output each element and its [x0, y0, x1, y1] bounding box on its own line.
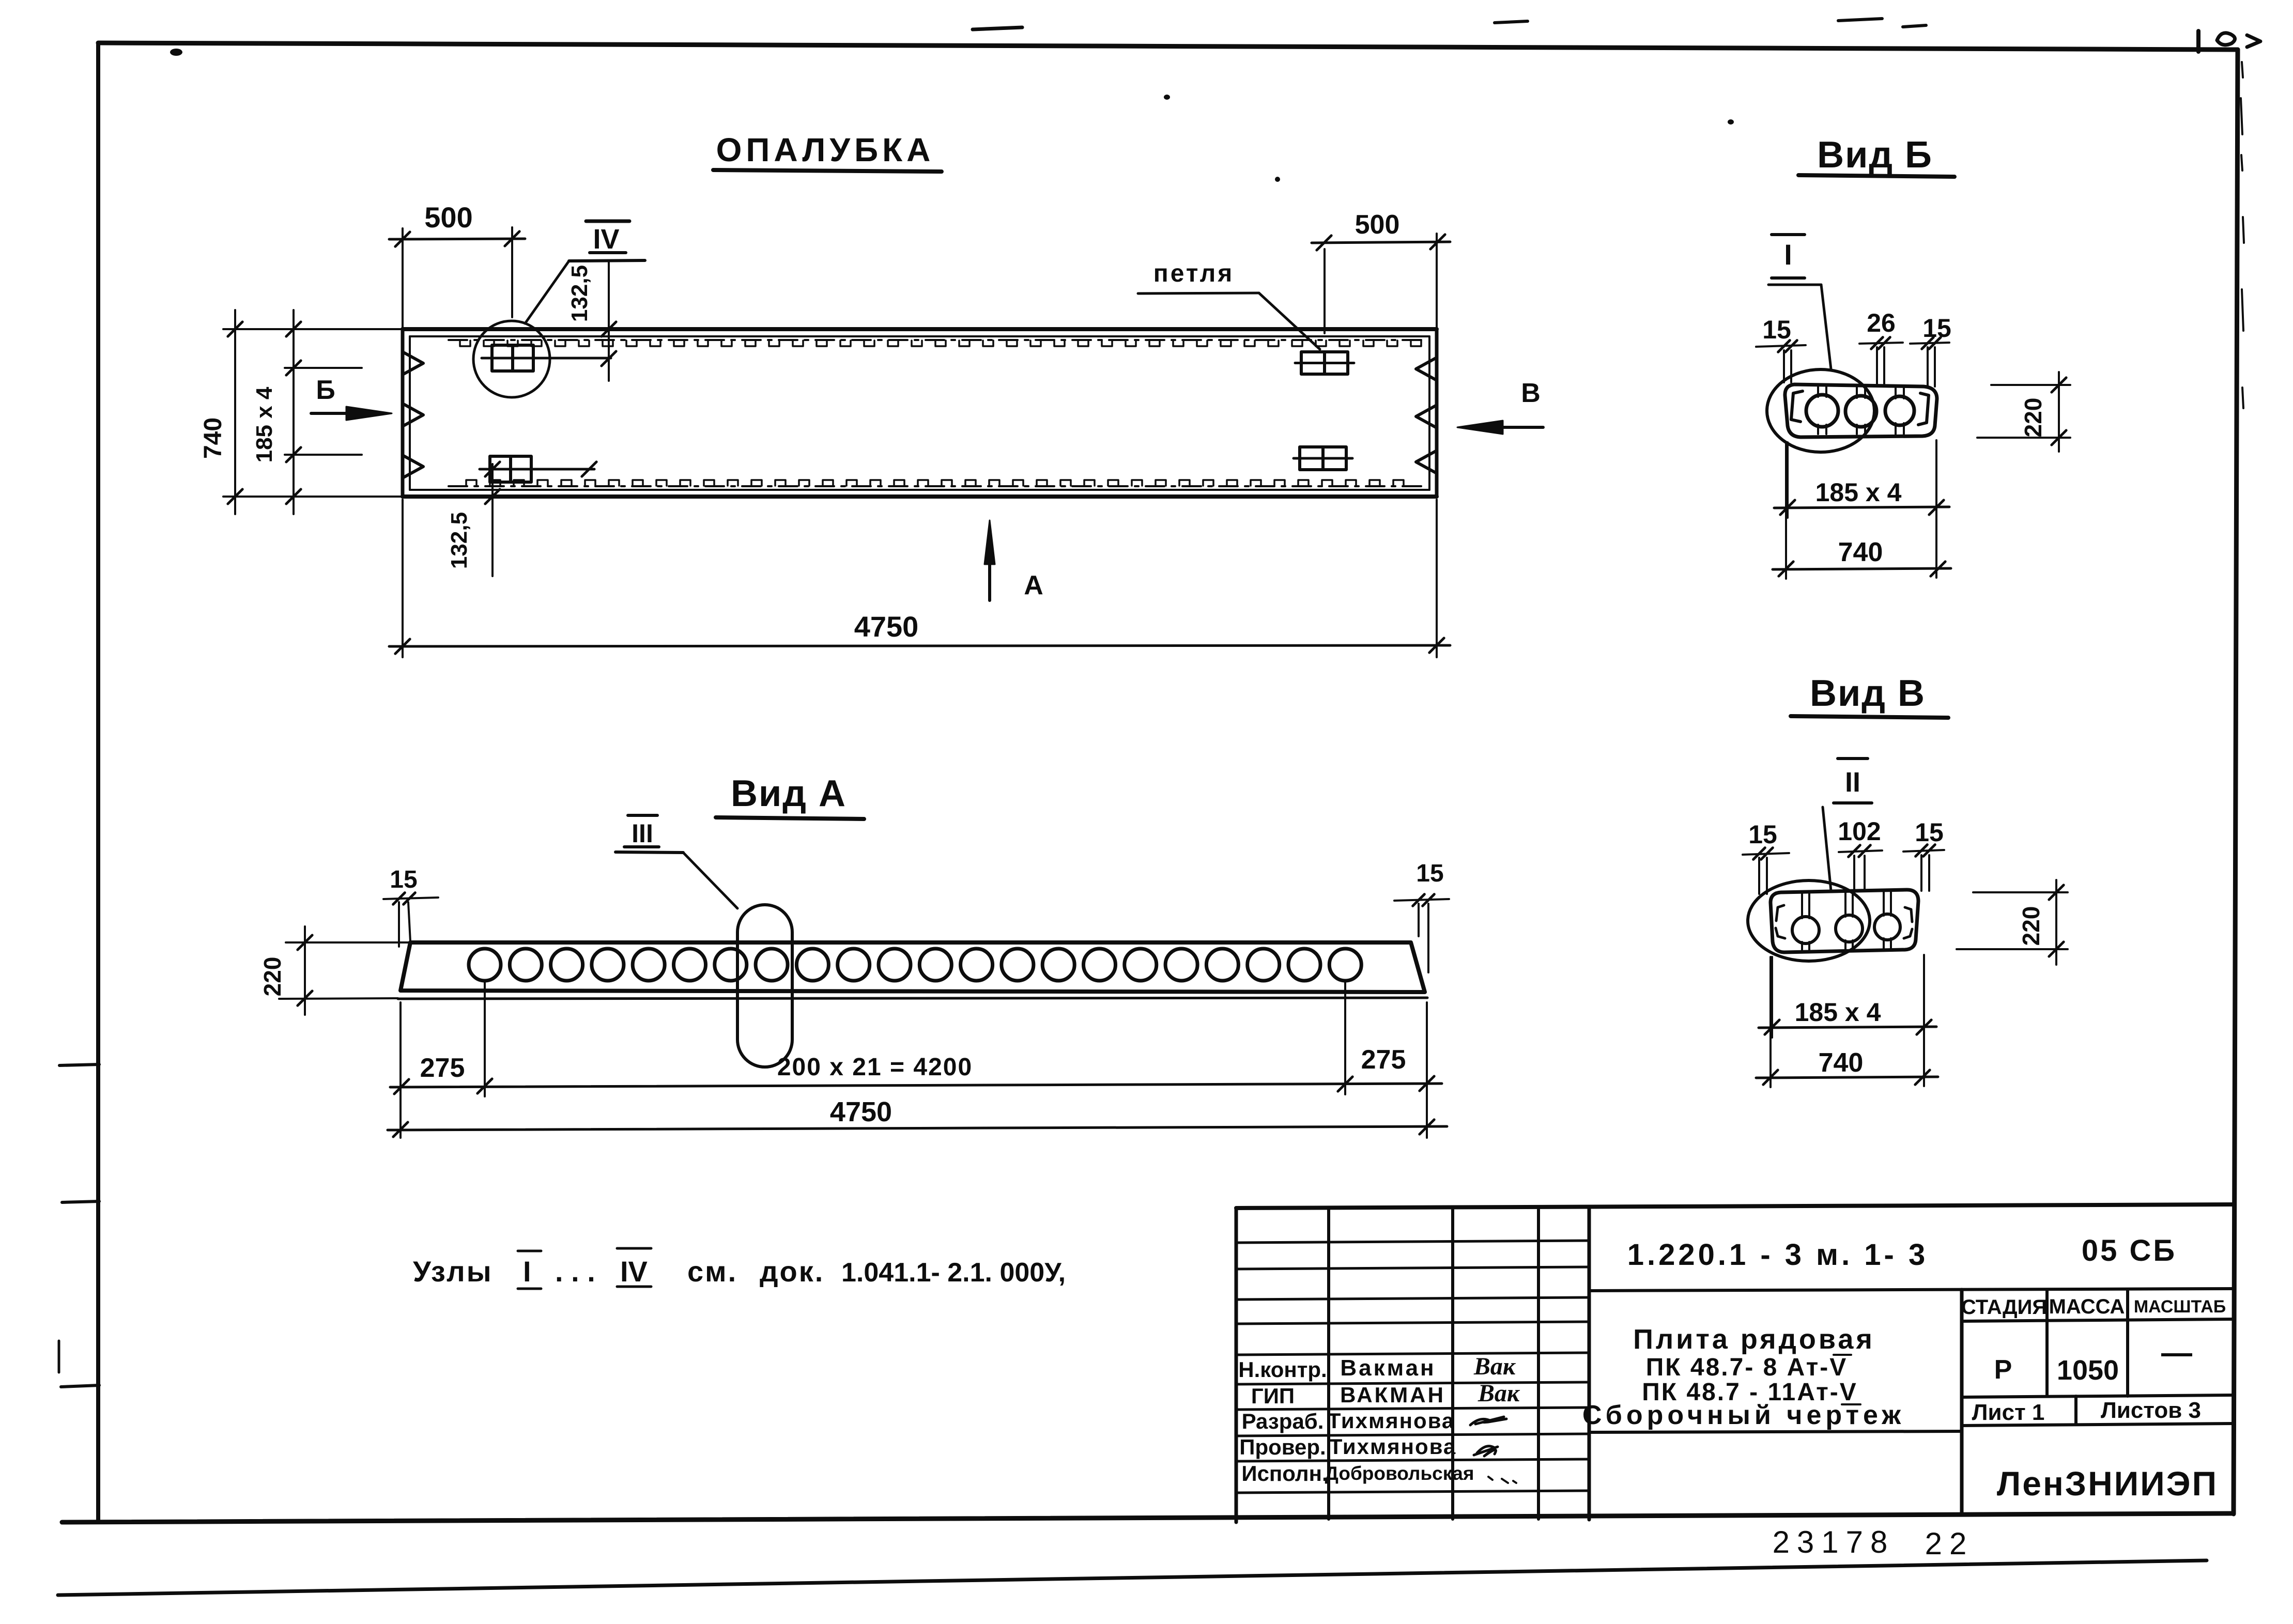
svg-text:Тихмянова: Тихмянова	[1328, 1409, 1455, 1433]
serrated key joint top (dash-dot + teeth)	[449, 339, 1422, 341]
svg-text:А: А	[1024, 570, 1043, 600]
svg-text:Вак: Вак	[1478, 1380, 1520, 1407]
svg-text:IV: IV	[593, 224, 619, 255]
svg-text:—: —	[2161, 1335, 2192, 1370]
detail capsule callout III	[737, 905, 792, 1067]
left margin fold ticks	[59, 1064, 99, 1065]
svg-text:МАСШТАБ: МАСШТАБ	[2134, 1297, 2226, 1317]
svg-text:740: 740	[199, 417, 227, 459]
svg-text:Исполн.: Исполн.	[1241, 1461, 1328, 1486]
svg-text:Вид А: Вид А	[731, 773, 847, 814]
section В cores	[1792, 917, 1819, 944]
svg-text:15: 15	[1762, 315, 1791, 344]
svg-text:05 СБ: 05 СБ	[2082, 1234, 2177, 1267]
svg-text:Добровольская: Добровольская	[1325, 1463, 1474, 1484]
svg-text:Вакман: Вакман	[1340, 1355, 1436, 1381]
svg-text:Вид В: Вид В	[1810, 673, 1926, 714]
svg-text:500: 500	[1355, 210, 1400, 240]
section Б slab outline	[1785, 384, 1937, 437]
svg-text:СТАДИЯ: СТАДИЯ	[1961, 1296, 2047, 1319]
svg-text:Узлы: Узлы	[413, 1255, 493, 1288]
svg-text:15: 15	[1748, 820, 1777, 849]
svg-text:Плита рядовая: Плита рядовая	[1633, 1324, 1875, 1355]
svg-text:МАССА: МАССА	[2049, 1295, 2125, 1318]
svg-text:ВАКМАН: ВАКМАН	[1340, 1383, 1445, 1407]
section В ribs	[1801, 892, 1803, 918]
detail circle callout IV	[473, 321, 550, 397]
side view slab outline	[401, 942, 1425, 992]
svg-text:Н.контр.: Н.контр.	[1238, 1357, 1327, 1382]
svg-text:В: В	[1521, 378, 1541, 408]
lifting loop (петля) top-right	[1301, 352, 1348, 374]
title block frame	[1236, 1204, 2235, 1208]
svg-text:Сборочный чертеж: Сборочный чертеж	[1582, 1400, 1905, 1430]
svg-text:15: 15	[390, 866, 417, 893]
svg-text:I: I	[523, 1255, 531, 1288]
section В slab outline	[1771, 890, 1918, 952]
svg-text:см.: см.	[687, 1255, 737, 1288]
svg-text:740: 740	[1838, 537, 1883, 567]
svg-text:ЛенЗНИИЭП: ЛенЗНИИЭП	[1997, 1464, 2218, 1503]
svg-text:ГИП: ГИП	[1251, 1384, 1295, 1408]
svg-text:132,5: 132,5	[567, 265, 592, 322]
svg-text:15: 15	[1922, 314, 1951, 343]
svg-text:200 x 21 = 4200: 200 x 21 = 4200	[777, 1054, 973, 1081]
svg-text:220: 220	[2018, 906, 2044, 946]
svg-text:500: 500	[424, 201, 472, 234]
side view hollow cores (22)	[469, 949, 501, 981]
svg-text:Тихмянова: Тихмянова	[1329, 1434, 1456, 1459]
svg-text:Провер.: Провер.	[1239, 1435, 1326, 1459]
break zigzags right edge	[1416, 358, 1437, 380]
bottom rule line	[58, 1560, 2207, 1595]
svg-text:Вак: Вак	[1473, 1353, 1516, 1380]
svg-text:Листов 3: Листов 3	[2101, 1398, 2201, 1423]
slab outline plan (outer)	[403, 327, 1437, 331]
lifting loop (петля) top-left	[492, 345, 533, 371]
svg-text:132,5: 132,5	[447, 512, 472, 569]
svg-text:185 x 4: 185 x 4	[1815, 478, 1902, 507]
page border frame	[98, 43, 2238, 50]
svg-text:1.041.1- 2.1. 000У,: 1.041.1- 2.1. 000У,	[841, 1258, 1066, 1288]
lifting loop (петля) bottom-right	[1300, 447, 1346, 470]
svg-text:22: 22	[1925, 1526, 1974, 1561]
svg-text:Разраб.: Разраб.	[1242, 1409, 1324, 1433]
svg-text:док.: док.	[760, 1255, 824, 1288]
svg-text:Р: Р	[1994, 1355, 2012, 1385]
svg-text:220: 220	[259, 957, 286, 997]
svg-text:ОПАЛУБКА: ОПАЛУБКА	[716, 131, 935, 168]
title block inner lines right part	[1589, 1289, 2234, 1291]
section Б cores	[1806, 395, 1838, 427]
break zigzags left edge	[403, 352, 423, 375]
signature table columns	[1327, 1210, 1330, 1519]
section В end slots (dashed)	[1776, 905, 1784, 921]
svg-text:15: 15	[1416, 860, 1443, 887]
svg-text:4750: 4750	[830, 1096, 892, 1127]
torn corner scribble top-right	[2196, 31, 2200, 52]
svg-text:185 x 4: 185 x 4	[252, 386, 277, 462]
svg-text:Лист 1: Лист 1	[1972, 1400, 2045, 1425]
svg-text:III: III	[632, 819, 653, 848]
signature table rows	[1236, 1241, 1589, 1243]
section Б ribs	[1817, 387, 1819, 397]
svg-text:Б: Б	[316, 375, 335, 405]
svg-text:ПК 48.7- 8 Ат-V: ПК 48.7- 8 Ат-V	[1646, 1354, 1848, 1381]
svg-text:петля: петля	[1153, 260, 1234, 287]
section Б end slots	[1791, 391, 1803, 422]
svg-text:Вид Б: Вид Б	[1817, 134, 1933, 176]
detail oval callout I	[1767, 369, 1874, 452]
svg-text:15: 15	[1915, 818, 1944, 847]
svg-text:220: 220	[2020, 398, 2046, 438]
scan specks top	[973, 27, 1022, 29]
svg-text:275: 275	[420, 1053, 465, 1083]
svg-text:I: I	[1784, 238, 1792, 271]
svg-text:23178: 23178	[1773, 1525, 1895, 1559]
svg-text:102: 102	[1838, 817, 1881, 846]
lifting loop (петля) bottom-left	[490, 456, 531, 482]
svg-text:185 x 4: 185 x 4	[1795, 998, 1881, 1027]
serrated key joint bottom (dash-dot + teeth)	[449, 485, 1422, 487]
svg-text:1050: 1050	[2057, 1355, 2119, 1386]
svg-text:. . .: . . .	[555, 1255, 595, 1288]
slab outline plan (inner)	[410, 335, 1429, 337]
svg-text:IV: IV	[620, 1255, 648, 1288]
svg-text:740: 740	[1819, 1048, 1864, 1078]
svg-text:4750: 4750	[854, 610, 919, 643]
svg-text:1.220.1 - 3 м. 1- 3: 1.220.1 - 3 м. 1- 3	[1627, 1238, 1929, 1272]
svg-text:II: II	[1845, 767, 1860, 798]
detail oval callout II	[1748, 880, 1870, 961]
svg-text:275: 275	[1361, 1045, 1406, 1075]
svg-text:26: 26	[1867, 308, 1896, 337]
